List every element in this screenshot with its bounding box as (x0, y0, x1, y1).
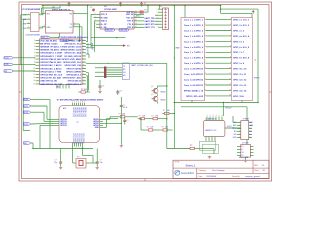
svg-text:5: 5 (219, 115, 220, 117)
svg-text:IO0: IO0 (123, 72, 126, 74)
wire vertical left pair (21, 15, 27, 131)
svg-text:9: 9 (204, 62, 205, 64)
svg-text:3: 3 (230, 29, 231, 31)
svg-text:33: 33 (83, 58, 85, 60)
svg-text:1: 1 (207, 115, 208, 117)
svg-text:GPIO4 ADC2_0: GPIO4 ADC2_0 (66, 74, 82, 77)
svg-text:GPIO0 BOOT_ADC: GPIO0 BOOT_ADC (63, 77, 82, 80)
svg-text:GPIO32 XTAL32_ADC: GPIO32 XTAL32_ADC (40, 58, 62, 61)
ground bottom right (208, 156, 211, 159)
label MicroUSB above title block (239, 157, 249, 159)
port flag lower 4 (24, 123, 56, 126)
svg-text:Conn_1x11 GPIO11: Conn_1x11 GPIO11 (184, 74, 204, 76)
svg-text:2: 2 (34, 43, 35, 45)
module U5 (57, 100, 103, 143)
svg-text:GPIO27 ADC2_7 TMS: GPIO27 ADC2_7 TMS (40, 70, 62, 73)
svg-text:R?: R? (162, 127, 164, 129)
svg-text:25: 25 (83, 83, 85, 85)
svg-text:35: 35 (83, 52, 85, 54)
wire U2 right to down (77, 6, 88, 44)
svg-text:6: 6 (34, 55, 35, 57)
svg-text:GPIO_12 x 12: GPIO_12 x 12 (233, 79, 247, 81)
U5 bottom pins (72, 133, 84, 150)
svg-text:15: 15 (229, 95, 231, 97)
svg-text:C?: C? (90, 7, 92, 9)
svg-text:4: 4 (204, 35, 205, 37)
svg-text:10: 10 (33, 68, 35, 70)
svg-text:SPI/SD_DATA3 x 14: SPI/SD_DATA3 x 14 (184, 89, 204, 92)
svg-text:GPIO25 DAC_1 ADC2: GPIO25 DAC_1 ADC2 (40, 64, 62, 67)
svg-text:GPIO12_DQ: GPIO12_DQ (76, 107, 78, 117)
svg-text:Conn_1x13 GPIO13: Conn_1x13 GPIO13 (184, 85, 204, 87)
U6 right pin (225, 126, 241, 129)
U2 pins (42, 5, 78, 37)
sheet border frame (19, 2, 272, 181)
capacitor C mid (116, 90, 122, 95)
svg-text:7: 7 (84, 101, 85, 103)
svg-text:15: 15 (33, 83, 35, 85)
svg-text:RTS_N: RTS_N (127, 21, 134, 23)
svg-text:GPIO15: GPIO15 (60, 125, 66, 127)
svg-text:4: 4 (40, 26, 41, 28)
svg-text:VOUT: VOUT (227, 126, 232, 128)
svg-text:1: 1 (34, 40, 35, 42)
svg-text:GPIO_1 x 1 IO_1: GPIO_1 x 1 IO_1 (233, 20, 250, 22)
svg-text:3: 3 (74, 12, 75, 14)
IC U6 (203, 118, 225, 137)
svg-text:Conn_1x12 GPIO12: Conn_1x12 GPIO12 (184, 79, 204, 81)
svg-text:GPIO35 ADC1_7 VDET: GPIO35 ADC1_7 VDET (40, 55, 63, 58)
svg-text:9: 9 (34, 65, 35, 67)
svg-text:8: 8 (34, 62, 35, 64)
svg-text:11: 11 (229, 73, 231, 75)
svg-text:Sheet:: Sheet: (254, 169, 259, 172)
LED D2 (190, 145, 199, 150)
svg-text:REV:: REV: (254, 165, 258, 167)
port flag lower 3 (24, 111, 45, 114)
svg-text:IO13: IO13 (24, 112, 28, 114)
svg-text:6: 6 (222, 115, 223, 117)
wires J4 area (233, 116, 247, 144)
svg-text:C?: C? (120, 91, 122, 93)
svg-text:GPIO_4 x 4 IO_4: GPIO_4 x 4 IO_4 (233, 35, 250, 38)
svg-text:EasyEDA: EasyEDA (181, 171, 194, 175)
IC U3 CP2102 top-center (100, 6, 134, 29)
svg-text:28: 28 (83, 74, 85, 76)
wires U4 left to flags (13, 58, 36, 71)
crystal Y1 (76, 157, 86, 168)
svg-text:IO34: IO34 (5, 58, 9, 60)
wires U5 right routing (103, 117, 122, 128)
svg-text:4: 4 (230, 35, 231, 37)
P2 top wire from rail (184, 5, 185, 18)
svg-text:2: 2 (28, 18, 29, 20)
svg-text:GPIO_15 A: GPIO_15 A (233, 95, 244, 98)
svg-text:1: 1 (72, 101, 73, 103)
U1 pins left (22, 13, 31, 29)
svg-text:GPIO_3 x 3: GPIO_3 x 3 (233, 30, 245, 32)
port flag left 2 (4, 63, 13, 66)
svg-text:XPD_DCDC3: XPD_DCDC3 (78, 133, 80, 143)
J3 target box (122, 63, 129, 79)
svg-text:12p: 12p (54, 162, 57, 164)
svg-text:SENSOR_VN ADC1_3: SENSOR_VN ADC1_3 (40, 49, 62, 52)
svg-text:GPIO_9 x 9: GPIO_9 x 9 (233, 63, 245, 65)
svg-text:AMS1117-3.3: AMS1117-3.3 (206, 129, 217, 132)
svg-text:RI_GND: RI_GND (101, 17, 108, 19)
svg-text:R?: R? (147, 127, 149, 129)
svg-text:3: 3 (76, 101, 77, 103)
port flag below U2 left (41, 36, 59, 39)
svg-text:IO0: IO0 (234, 128, 237, 130)
svg-text:IO12: IO12 (24, 106, 28, 108)
svg-text:GPIO11_DQ: GPIO11_DQ (74, 107, 76, 117)
svg-text:29: 29 (83, 71, 85, 73)
svg-text:34: 34 (83, 55, 85, 57)
title drawn by (232, 175, 260, 178)
svg-text:GPIO16_DQ: GPIO16_DQ (84, 107, 86, 117)
transistor Q2 (151, 94, 165, 104)
U4 right pins (61, 40, 86, 86)
header J4 (233, 119, 254, 140)
wires U4 right side (86, 42, 167, 92)
wire crystal rail (33, 147, 97, 164)
svg-text:6: 6 (230, 46, 231, 48)
svg-text:Conn_1 x 7 GPIO_7: Conn_1 x 7 GPIO_7 (184, 52, 204, 54)
svg-text:7: 7 (156, 27, 157, 29)
svg-text:3: 3 (34, 46, 35, 48)
svg-text:Conn_1 x 8 GPIO_8: Conn_1 x 8 GPIO_8 (184, 58, 204, 60)
svg-text:GPIO13_DQ: GPIO13_DQ (78, 107, 80, 117)
svg-text:9: 9 (230, 62, 231, 64)
U5 left pins (56, 118, 67, 127)
power flag 3V3 top-left (68, 2, 71, 6)
port flag left 3 (4, 70, 13, 73)
svg-text:5: 5 (230, 40, 231, 42)
svg-text:13: 13 (33, 77, 35, 79)
svg-text:10: 10 (229, 67, 231, 69)
wire U3 left verticals (91, 14, 96, 52)
port flag below U2 right (60, 39, 73, 42)
svg-text:GPIO33 XTAL32_ADC: GPIO33 XTAL32_ADC (40, 61, 62, 64)
svg-text:MTDO_SPI x A15: MTDO_SPI x A15 (186, 95, 204, 98)
svg-text:GPIO14 TMS_SD_CLK: GPIO14 TMS_SD_CLK (40, 74, 62, 77)
U1 pin right 4 + wire to U2 (39, 26, 46, 28)
svg-text:SENSOR_VP ADC1_0: SENSOR_VP ADC1_0 (40, 46, 62, 49)
svg-text:1: 1 (230, 18, 231, 20)
capacitor C6 vertical (123, 118, 128, 125)
svg-text:3: 3 (204, 29, 205, 31)
title sheet name (186, 164, 197, 168)
P2-P3 row wires and labels (184, 18, 250, 97)
svg-text:14: 14 (229, 89, 231, 91)
U5 top pins (72, 101, 86, 117)
EasyEDA logo (175, 170, 194, 175)
svg-text:12: 12 (229, 78, 231, 80)
U5 right pins (93, 119, 103, 129)
svg-text:GND_D: GND_D (101, 21, 108, 23)
svg-text:R? 10K: R? 10K (81, 89, 88, 91)
svg-text:USB_DP: USB_DP (106, 30, 114, 32)
net labels UART (145, 17, 156, 29)
svg-text:Conn_1 x 2 GPIO_2: Conn_1 x 2 GPIO_2 (184, 25, 204, 27)
svg-text:TXD_U0: TXD_U0 (126, 17, 133, 19)
U1 pin right VOUT (39, 13, 43, 15)
U3 pins left (94, 13, 108, 29)
svg-text:R?: R? (190, 145, 192, 147)
svg-text:14: 14 (33, 80, 35, 82)
U6 bottom nested boxes (200, 137, 219, 154)
title company (199, 169, 225, 172)
svg-text:IO14: IO14 (24, 99, 28, 101)
svg-text:5: 5 (204, 40, 205, 42)
svg-text:GPIO5 VSPI_CS0: GPIO5 VSPI_CS0 (64, 65, 82, 67)
svg-text:Conn_1 x 6 GPIO_6: Conn_1 x 6 GPIO_6 (184, 47, 204, 49)
svg-text:RXD0 U0RXD_CLK2: RXD0 U0RXD_CLK2 (61, 50, 82, 52)
grounds crystal (59, 166, 99, 169)
svg-text:ESP32: ESP32 (254, 78, 260, 80)
svg-text:XPD_DCDC0: XPD_DCDC0 (72, 133, 74, 143)
svg-text:4: 4 (216, 115, 217, 117)
wire top VCC rail (42, 5, 221, 7)
resistor R4 (151, 115, 160, 119)
svg-text:IO35: IO35 (5, 64, 9, 66)
label UART long (131, 64, 153, 67)
svg-text:Conn_1 x 3 GPIO_3: Conn_1 x 3 GPIO_3 (184, 30, 204, 32)
svg-text:7: 7 (204, 51, 205, 53)
svg-text:XPD_DCDC4: XPD_DCDC4 (80, 133, 82, 143)
wire U2 left power (42, 6, 61, 14)
connector P2 left column (173, 18, 205, 101)
svg-text:XC6206P332MR: XC6206P332MR (26, 34, 41, 36)
header J3 programming (104, 63, 109, 78)
svg-text:CP2102-GMR: CP2102-GMR (104, 9, 117, 11)
wire long vertical left of block (174, 5, 180, 149)
svg-text:GPIO34 ADC1_6 VDET: GPIO34 ADC1_6 VDET (40, 52, 63, 55)
svg-text:VBAT: VBAT (175, 47, 179, 50)
resistor R2 (118, 114, 127, 118)
svg-text:GPIO10_DQ: GPIO10_DQ (72, 107, 74, 117)
svg-text:2: 2 (210, 115, 211, 117)
svg-text:GPIO2 ADC15: GPIO2 ADC15 (68, 80, 83, 83)
svg-text:TITLE:: TITLE: (175, 161, 181, 163)
svg-text:GPIO_14 x 14: GPIO_14 x 14 (233, 89, 247, 92)
svg-text:TXD0 U0TXD_CLK3: TXD0 U0TXD_CLK3 (62, 47, 82, 49)
svg-text:5: 5 (40, 13, 41, 15)
svg-text:C?: C? (127, 120, 129, 122)
wire bottom-right rails (167, 149, 214, 155)
svg-text:Conn_1 x 4 GPIO_4: Conn_1 x 4 GPIO_4 (184, 35, 204, 38)
svg-text:P?: P? (254, 59, 256, 61)
title sheet num (254, 169, 265, 172)
svg-text:DCD_N: DCD_N (101, 14, 108, 16)
title REV (254, 165, 264, 167)
svg-text:GPIO_13 x 13: GPIO_13 x 13 (233, 85, 247, 87)
svg-text:26: 26 (83, 80, 85, 82)
svg-text:3V3: 3V3 (47, 14, 50, 16)
U4 left pins (33, 39, 63, 86)
resistor R5 (162, 110, 171, 114)
capacitor C near U3 (90, 7, 95, 12)
svg-text:XPD_DCDC1: XPD_DCDC1 (74, 133, 76, 143)
svg-text:36: 36 (83, 49, 85, 51)
svg-text:GPIO_2 x 2 IO_2: GPIO_2 x 2 IO_2 (233, 25, 250, 27)
svg-text:1/1: 1/1 (263, 170, 266, 172)
svg-text:UART_RXD: UART_RXD (145, 20, 156, 23)
power flag 3V3 top-mid (140, 2, 143, 6)
svg-text:S8050: S8050 (161, 91, 166, 93)
wires below block (174, 101, 259, 121)
svg-text:3V3 LNA_IN ADC: 3V3 LNA_IN ADC (40, 39, 57, 42)
connector J5 (237, 142, 254, 157)
svg-text:R?: R? (139, 115, 141, 117)
svg-text:D+: D+ (242, 146, 244, 148)
svg-text:12p: 12p (100, 162, 103, 164)
svg-text:37: 37 (83, 46, 85, 48)
U1 value text (26, 34, 41, 36)
svg-text:Conn_1 x 9 GPIO_9: Conn_1 x 9 GPIO_9 (184, 63, 204, 65)
svg-text:D?: D? (145, 9, 147, 11)
svg-text:5: 5 (80, 101, 81, 103)
wires mid network (107, 63, 176, 148)
port flag below U3 left (105, 29, 115, 32)
wires above P3 (220, 5, 258, 103)
svg-text:IO15: IO15 (24, 124, 28, 126)
svg-text:Company:: Company: (199, 170, 207, 172)
svg-text:J?: J? (107, 63, 109, 65)
svg-text:3V3: 3V3 (233, 134, 236, 136)
header J2 7pin (156, 6, 168, 30)
svg-text:CTS_N: CTS_N (127, 24, 134, 26)
svg-text:GND GPIO13_SD_DAT: GND GPIO13_SD_DAT (40, 83, 63, 86)
capacitor C below J3 (98, 80, 104, 93)
svg-text:R?: R? (163, 110, 165, 112)
svg-text:GPIO_11 x 11: GPIO_11 x 11 (233, 74, 247, 76)
svg-text:GPIO26 DAC_2 ADC2: GPIO26 DAC_2 ADC2 (40, 67, 62, 70)
svg-text:13: 13 (229, 84, 231, 86)
svg-text:6: 6 (82, 101, 83, 103)
svg-text:U?: U? (77, 122, 79, 124)
wire D1 to rail (147, 5, 148, 12)
U6 top pins (207, 115, 223, 120)
svg-text:5: 5 (74, 22, 75, 24)
svg-text:EN_RST: EN_RST (91, 43, 93, 51)
svg-text:3: 3 (213, 115, 214, 117)
svg-text:5: 5 (34, 52, 35, 54)
connector P3 right column (231, 18, 259, 101)
svg-text:Q?: Q? (151, 94, 153, 96)
svg-text:GPIO14_DQ: GPIO14_DQ (80, 107, 82, 117)
svg-text:GPIO_6 x 6 IO_6: GPIO_6 x 6 IO_6 (233, 47, 250, 49)
port flag below U3 right (119, 29, 129, 32)
svg-text:Conn_1 x 5 GPIO_5: Conn_1 x 5 GPIO_5 (184, 41, 204, 43)
capacitor C load1 (54, 160, 62, 166)
svg-text:2: 2 (156, 12, 157, 14)
svg-text:GPIO22 I2C_SCL: GPIO22 I2C_SCL (65, 43, 82, 45)
svg-text:VIN_5V: VIN_5V (226, 108, 233, 110)
svg-text:GND: GND (95, 127, 100, 129)
title block (173, 160, 269, 178)
resistor R pullup (78, 89, 89, 93)
svg-text:Y?: Y? (77, 157, 79, 159)
svg-text:Sheet_1: Sheet_1 (186, 164, 197, 168)
svg-text:R?: R? (119, 114, 121, 116)
svg-text:UART_DOWNLOAD_SEL: UART_DOWNLOAD_SEL (131, 64, 153, 67)
capacitor C5 (120, 103, 128, 109)
svg-text:27: 27 (83, 77, 85, 79)
svg-text:1.0: 1.0 (262, 165, 265, 167)
svg-text:6: 6 (74, 25, 75, 27)
svg-text:GPIO_7 x 7: GPIO_7 x 7 (233, 52, 245, 54)
svg-text:2: 2 (44, 25, 45, 27)
ground mid (120, 144, 123, 147)
svg-text:Conn_1x10 GPIO10: Conn_1x10 GPIO10 (184, 69, 204, 71)
svg-text:25: 25 (135, 20, 137, 22)
svg-text:Date:: Date: (199, 175, 204, 178)
port flag lower 5 (24, 142, 34, 149)
svg-text:39: 39 (83, 40, 85, 42)
capacitor C load2 (96, 160, 103, 166)
resistor R3 (138, 115, 147, 119)
svg-text:Q?: Q? (151, 86, 153, 88)
svg-text:38: 38 (83, 43, 85, 45)
wire mid y37.6 (91, 37, 126, 38)
junction on rail (87, 5, 160, 6)
svg-text:Micro_USB: Micro_USB (239, 157, 249, 159)
svg-text:EN GPIO0_U ADC: EN GPIO0_U ADC (40, 42, 58, 45)
svg-text:2023-08-04: 2023-08-04 (207, 176, 217, 178)
svg-text:3: 3 (28, 22, 29, 24)
port flag left 1 (4, 57, 13, 60)
svg-text:GPIO15_DQ: GPIO15_DQ (82, 107, 84, 117)
svg-text:GPIO_8 x 8 IO_8: GPIO_8 x 8 IO_8 (233, 58, 250, 60)
title date (199, 175, 217, 178)
svg-text:2: 2 (74, 101, 75, 103)
svg-text:6: 6 (204, 46, 205, 48)
diode D1 (134, 9, 148, 17)
ground under J5 (244, 157, 247, 162)
svg-text:UART_RTS: UART_RTS (145, 23, 156, 26)
svg-text:1: 1 (28, 13, 29, 15)
parts near 128,130 (146, 127, 170, 131)
svg-text:GPIO16 U2RXD: GPIO16 U2RXD (66, 71, 82, 73)
svg-text:C?: C? (102, 86, 104, 88)
svg-text:GPIO19 VSPI_MISO: GPIO19 VSPI_MISO (62, 59, 82, 61)
svg-text:UART_TXD: UART_TXD (145, 17, 156, 20)
svg-text:GPIO17 U2TXD: GPIO17 U2TXD (66, 68, 81, 70)
svg-text:31: 31 (83, 65, 85, 67)
U3 pins right (126, 11, 138, 29)
svg-text:2: 2 (230, 24, 231, 26)
svg-text:4: 4 (78, 101, 79, 103)
svg-text:D+_DP: D+_DP (101, 24, 108, 26)
svg-text:4: 4 (34, 49, 35, 51)
svg-text:7: 7 (230, 51, 231, 53)
svg-text:NC GND_GPIO19: NC GND_GPIO19 (64, 56, 82, 58)
svg-text:ANT: ANT (63, 107, 66, 110)
svg-text:J? USB: J? USB (242, 142, 249, 144)
svg-text:consumer_gerrard: consumer_gerrard (245, 176, 260, 178)
svg-text:Your Company: Your Company (212, 169, 224, 172)
regulator U1 (22, 9, 41, 31)
MCU U4 (40, 37, 89, 84)
svg-text:23: 23 (135, 26, 137, 28)
transistor Q1 (151, 85, 168, 93)
svg-text:12: 12 (33, 74, 35, 76)
svg-text:8: 8 (230, 57, 231, 59)
svg-text:GND GPIO23_VSPI: GND GPIO23_VSPI (63, 40, 82, 42)
port flag lower 2 (24, 105, 48, 108)
